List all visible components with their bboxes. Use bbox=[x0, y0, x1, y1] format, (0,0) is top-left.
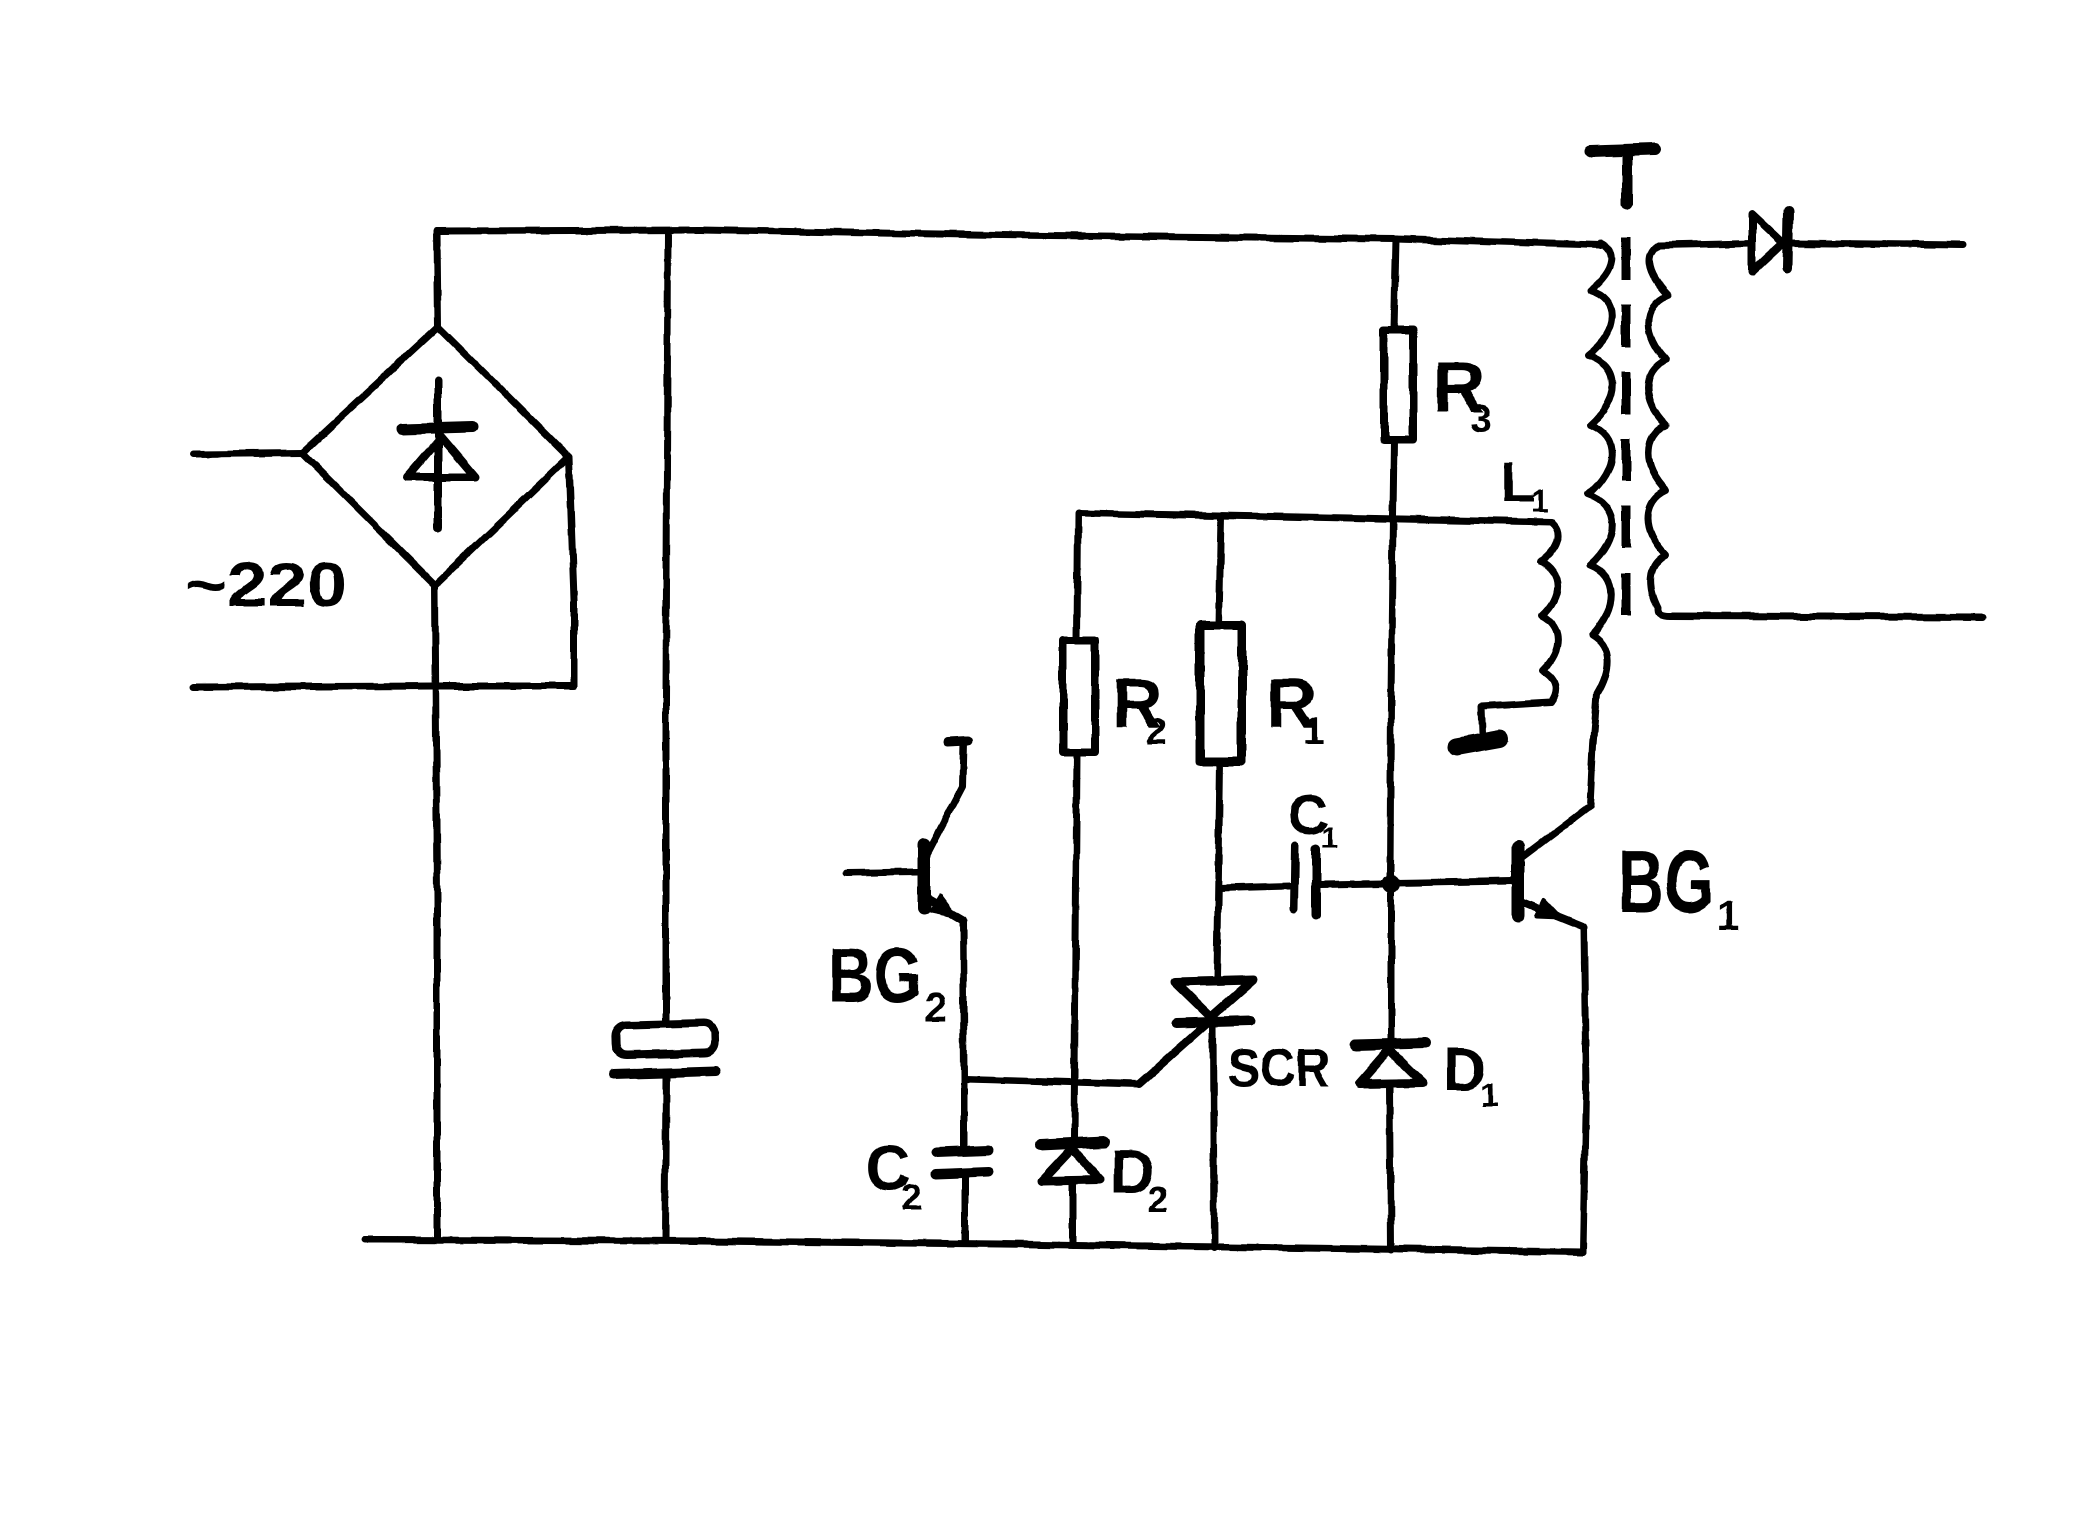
wire SCR cathode lead bbox=[1213, 1021, 1214, 1248]
label T bbox=[1590, 149, 1655, 204]
svg-text:1: 1 bbox=[1480, 1077, 1499, 1115]
diode D3 output bbox=[1752, 211, 1788, 272]
SCR thyristor bbox=[1139, 980, 1253, 1084]
transformer T secondary winding bbox=[1648, 245, 1668, 608]
svg-text:2: 2 bbox=[924, 984, 947, 1031]
svg-text:~220: ~220 bbox=[185, 551, 347, 620]
label BG1 bbox=[1618, 832, 1739, 939]
capacitor filter (electrolytic) bbox=[614, 1023, 716, 1074]
svg-text:1: 1 bbox=[1321, 821, 1338, 854]
wire secondary top lead bbox=[1659, 243, 1752, 245]
wire D1 bottom lead bbox=[1390, 1085, 1391, 1250]
wire node to D1 lead bbox=[1388, 892, 1395, 1041]
resistor R2 bbox=[1063, 640, 1095, 753]
label L1 bbox=[1501, 450, 1549, 519]
inductor L1 winding bbox=[1541, 523, 1558, 702]
wire R3 top lead bbox=[1394, 239, 1396, 330]
diode D1 bbox=[1356, 1043, 1426, 1084]
wire gate line bbox=[965, 1022, 1209, 1084]
label D2 bbox=[1110, 1138, 1168, 1220]
wire output top bbox=[1790, 243, 1963, 245]
wire bridge negative lead bbox=[435, 585, 437, 1240]
svg-text:2: 2 bbox=[901, 1177, 922, 1219]
label BG2 bbox=[828, 931, 947, 1031]
svg-text:3: 3 bbox=[1470, 397, 1492, 441]
wire C1 to node bbox=[1320, 884, 1384, 885]
capacitor filter bottom lead bbox=[665, 1076, 666, 1240]
wire R1 top lead bbox=[1219, 516, 1221, 625]
svg-text:BG: BG bbox=[1618, 832, 1714, 931]
wire C1 left branch bbox=[1219, 886, 1290, 888]
transformer T primary winding bbox=[1588, 243, 1612, 806]
wire base line BG1 bbox=[1394, 881, 1512, 883]
transistor BG1 bbox=[1518, 806, 1590, 927]
wire AC input top bbox=[194, 453, 302, 454]
resistor R1 bbox=[1200, 625, 1242, 762]
wire BG2 emitter lead bbox=[963, 920, 964, 1148]
label R1 bbox=[1266, 664, 1324, 753]
svg-text:SCR: SCR bbox=[1228, 1038, 1330, 1098]
wire R1 bottom lead bbox=[1217, 762, 1220, 978]
bridge rectifier bbox=[302, 327, 569, 585]
label C1 bbox=[1288, 783, 1338, 854]
wire bridge top lead bbox=[437, 231, 438, 327]
wire R2 to D2 lead bbox=[1074, 753, 1077, 1139]
label R3 bbox=[1433, 348, 1492, 441]
wire R2 top lead bbox=[1077, 514, 1078, 640]
svg-text:1: 1 bbox=[1531, 483, 1549, 519]
resistor R3 bbox=[1384, 330, 1413, 440]
label R2 bbox=[1112, 664, 1167, 753]
diode D2 bbox=[1040, 1142, 1104, 1181]
capacitor C2 bbox=[936, 1150, 989, 1174]
label D1 bbox=[1443, 1036, 1499, 1115]
wire R3 bottom lead bbox=[1393, 440, 1394, 516]
wire AC input bottom bbox=[194, 457, 574, 687]
transformer T core bbox=[1622, 238, 1631, 617]
transistor BG2 bbox=[847, 741, 968, 920]
label C2 bbox=[865, 1132, 922, 1219]
svg-text:2: 2 bbox=[1146, 711, 1167, 753]
wire bottom bus bbox=[364, 1240, 1583, 1252]
wire top bus bbox=[437, 230, 1601, 245]
wire R3 to node vertical bbox=[1390, 516, 1393, 876]
svg-text:BG: BG bbox=[828, 931, 922, 1019]
wire L1 to ground bbox=[1481, 702, 1551, 734]
wire D2 bottom lead bbox=[1070, 1182, 1077, 1245]
ground bbox=[1456, 739, 1500, 747]
wire C2 bottom lead bbox=[962, 1176, 969, 1243]
svg-text:1: 1 bbox=[1716, 892, 1739, 939]
wire BG1 emitter lead bbox=[1583, 927, 1586, 1252]
svg-text:1: 1 bbox=[1303, 711, 1324, 753]
wire sub rail bbox=[1078, 513, 1552, 522]
svg-text:2: 2 bbox=[1148, 1179, 1168, 1220]
capacitor filter top lead bbox=[666, 231, 668, 1024]
capacitor C1 bbox=[1294, 846, 1316, 915]
wire secondary bottom output bbox=[1658, 610, 1983, 617]
node junction bbox=[1382, 875, 1400, 893]
